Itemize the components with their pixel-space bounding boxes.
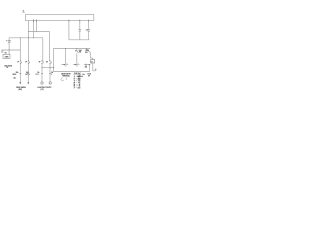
switch S2 right tick	[29, 61, 31, 63]
switch gap wire2 lower	[27, 64, 29, 83]
svg-text:1 – 30: 1 – 30	[74, 76, 81, 78]
group2 link y67.7	[42, 67, 54, 69]
switch gap wire1 lower	[19, 64, 21, 83]
earth tap on link	[79, 72, 81, 75]
svg-text:LTG: LTG	[36, 74, 40, 76]
svg-text:a: a	[29, 74, 30, 76]
svg-text:100A: 100A	[87, 73, 92, 76]
node link2-A	[41, 67, 42, 68]
node rail-A	[20, 37, 21, 38]
svg-text:3F: 3F	[39, 61, 41, 63]
arrowhead wire2	[27, 82, 29, 84]
switch S2	[28, 61, 30, 63]
svg-text:3 – 15: 3 – 15	[74, 80, 81, 82]
table	[73, 73, 81, 90]
svg-text:MAIN EARTH: MAIN EARTH	[61, 73, 70, 76]
wire x42.8 from rail end	[42, 38, 44, 61]
switch S3	[42, 61, 44, 63]
main switch drop x90.3	[89, 52, 91, 58]
arrowhead wire1	[19, 82, 21, 84]
svg-text:L: L	[51, 74, 52, 76]
junction dots	[9, 31, 78, 68]
junction tick x68.9	[68, 20, 70, 22]
svg-text:2F: 2F	[25, 62, 27, 64]
wire tap x20.3	[19, 38, 21, 61]
svg-text:5A: 5A	[37, 71, 40, 74]
svg-text:30A: 30A	[16, 71, 20, 74]
electrode E2 cell	[73, 63, 79, 65]
jog	[90, 57, 93, 59]
link dash wire2	[27, 73, 29, 75]
svg-text:RING MAINS: RING MAINS	[16, 86, 26, 89]
wire cap drop x9.1	[8, 38, 10, 41]
svg-text:M1: M1	[5, 53, 7, 55]
cap C3 wires	[88, 21, 90, 30]
meter box	[3, 54, 10, 58]
right top rail y39.8	[69, 39, 89, 41]
bottom link y71.5	[53, 71, 89, 73]
ground rail y50	[1, 49, 20, 51]
junction tick x33.4	[32, 19, 34, 22]
earth electrode under link	[77, 75, 83, 77]
cap C3 plates	[87, 29, 90, 31]
electrode E1 cell	[61, 63, 83, 79]
svg-text:RING: RING	[13, 74, 18, 76]
switch S1 right tick	[21, 61, 23, 63]
junction tick x36.5	[36, 19, 38, 21]
electrode E1 wire	[65, 49, 67, 64]
arrow tick off-page	[95, 68, 96, 69]
switch gap wire4 lower	[49, 64, 51, 82]
switch S5 blade	[77, 50, 79, 53]
node rail-B	[28, 37, 29, 38]
svg-text:C2: C2	[86, 29, 88, 31]
switch S1	[20, 60, 51, 64]
cap C2 plates	[78, 30, 90, 31]
switch S4 right tick	[50, 61, 52, 63]
svg-text:N: N	[75, 50, 76, 52]
busbar junction ticks	[33, 19, 88, 22]
svg-text:4c: 4c	[23, 10, 25, 13]
switch S3 right tick	[42, 61, 44, 63]
node link2-B	[49, 67, 50, 68]
switch gap wire3 lower	[41, 64, 43, 82]
node rail-C	[33, 37, 34, 38]
node rail2-A	[65, 48, 66, 49]
capacitor C1 plates	[7, 41, 10, 42]
svg-text:7 – 60: 7 – 60	[74, 88, 81, 90]
right rail y48.5	[53, 48, 90, 50]
earth marks under MAIN EARTH	[61, 78, 68, 81]
main switch pivot dot	[85, 47, 88, 50]
main switch blade	[87, 49, 91, 52]
svg-text:100A FUSE: 100A FUSE	[4, 64, 12, 67]
switch S5 wire	[76, 49, 78, 51]
lamp L1	[41, 82, 43, 84]
wire link y31.6	[29, 31, 50, 33]
svg-text:LIGHTING POINTS: LIGHTING POINTS	[37, 87, 51, 89]
wire tap x33.4	[32, 21, 34, 38]
wire x49.6 upper	[49, 32, 51, 61]
svg-text:1F: 1F	[17, 62, 19, 64]
switch right ticks	[22, 61, 52, 63]
svg-text:5 – 5: 5 – 5	[74, 84, 81, 86]
svg-text:(LP): (LP)	[40, 89, 44, 91]
fuse link	[84, 64, 90, 66]
switch S4	[50, 61, 52, 63]
wire tap x28.6	[28, 21, 30, 62]
wire x53.4 down	[52, 49, 54, 72]
riser x89.7	[89, 65, 91, 72]
wire tap x36.5	[36, 21, 38, 32]
node link-A	[28, 30, 29, 33]
svg-text:SW: SW	[79, 52, 82, 54]
link dash wire1	[19, 73, 21, 75]
wire x9.1 to meter box	[8, 42, 10, 54]
node gnd-A	[9, 50, 10, 51]
labels	[4, 10, 93, 91]
busbar rectangle	[25, 14, 93, 20]
tap x68.9	[68, 21, 70, 40]
svg-text:(A): (A)	[14, 77, 17, 80]
svg-text:60A: 60A	[79, 49, 83, 52]
svg-text:6 – 5: 6 – 5	[74, 86, 81, 88]
svg-text:16c: 16c	[82, 74, 85, 76]
left rail y37.8	[9, 37, 43, 39]
ground symbol left	[1, 51, 4, 52]
junction tick x88.7	[88, 20, 90, 22]
link dashes	[19, 73, 51, 75]
link dash wire4	[49, 73, 51, 75]
svg-text:DP: DP	[6, 67, 8, 69]
svg-text:2 – 30: 2 – 30	[74, 78, 81, 80]
junction tick x79.8	[79, 20, 81, 22]
node link2-C	[53, 67, 54, 68]
cap C2 wires	[79, 21, 81, 30]
node rail2-B	[76, 48, 77, 49]
link dash wire3	[41, 73, 43, 75]
wire below box	[92, 63, 94, 71]
svg-text:SW: SW	[85, 52, 88, 54]
lamp L2	[49, 82, 51, 84]
svg-text:(RM): (RM)	[18, 89, 22, 91]
breaker box	[91, 60, 95, 63]
svg-text:4F: 4F	[46, 60, 48, 63]
svg-text:SF: SF	[88, 75, 90, 77]
svg-text:60A: 60A	[85, 66, 88, 69]
